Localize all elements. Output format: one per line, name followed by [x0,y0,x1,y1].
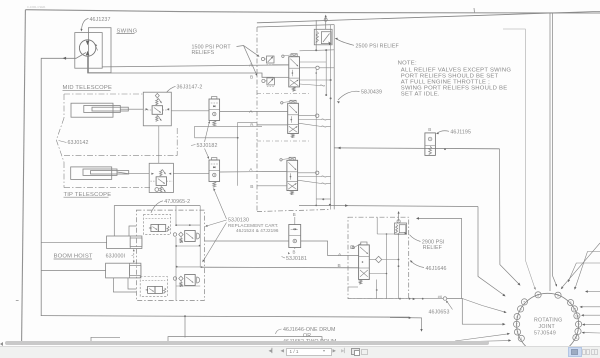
wire B2 [257,124,288,126]
hoist subvalve bottom-right [173,277,176,280]
svg-text:3: 3 [517,331,519,335]
svg-text:B: B [250,123,253,129]
wire A2 [262,110,288,112]
toolbar snapshot icon [351,348,360,355]
page layout button 2 [582,349,586,356]
svg-text:A: A [249,109,253,115]
svg-text:5: 5 [523,300,525,304]
wire bank return to top right [257,11,600,22]
wire B1 into spool [273,76,289,78]
svg-text:63J0142: 63J0142 [68,140,89,146]
svg-text:46J1652-TWO DRUM: 46J1652-TWO DRUM [283,339,336,345]
wire mid cb valve to check [171,110,209,112]
hoist assembly bus wires [175,206,177,226]
wire tip cyl to cb valve [129,173,150,175]
svg-text:B: B [293,212,296,217]
hoist subvalve top-right [173,233,176,236]
swing motor inner box [88,28,111,73]
svg-text:46J0653: 46J0653 [429,310,450,316]
wire bank feed to joint line [334,147,499,150]
title block partial [91,337,120,342]
check valve 53J0182 upper [212,97,217,99]
bank section divider 2 [257,140,310,142]
swing motor outer box [75,33,102,69]
spool valve mid telescope section [288,103,299,133]
svg-text:36J3147-2: 36J3147-2 [177,84,203,90]
svg-text:SET AT IDLE.: SET AT IDLE. [401,91,440,97]
boom cylinder 2 rod [41,269,105,271]
svg-text:53J0181: 53J0181 [286,256,307,262]
leader 53J0182 up [205,123,210,143]
wire L1 to joint [500,149,520,285]
svg-text:2500 PSI RELIEF: 2500 PSI RELIEF [356,43,400,49]
svg-text:4: 4 [516,315,518,319]
svg-text:RELIEFS: RELIEFS [192,50,215,56]
port relief B1 1500psi [262,79,265,82]
counterbalance valve 36J3147-2 mid [143,92,171,126]
wire spool1 bottom [300,79,331,81]
valve 46J1195 [425,133,436,156]
svg-text:JOINT: JOINT [539,324,556,330]
wires 46J1646 internal [376,217,378,234]
wire diag to joint 4 [462,299,505,313]
swing motor circle [79,40,95,56]
svg-text:B: B [338,263,341,269]
wire tip cb valve to check [173,173,209,175]
svg-text:11: 11 [574,336,578,340]
svg-text:46J1195: 46J1195 [450,129,471,135]
svg-text:RELIEF: RELIEF [423,245,443,251]
svg-text:8: 8 [570,301,572,305]
check valve 53J0182 lower [212,158,217,160]
svg-text:58J0439: 58J0439 [361,90,382,96]
scrollbar left arrow [0,342,3,346]
sheet top border [25,10,600,13]
leader port reliefs [237,46,259,57]
wire L2 to joint [478,207,505,296]
telescope assembly envelope 63J0142 [64,93,143,95]
wire bottom bus 298 [348,298,443,300]
gauge port circle s1 [300,67,316,69]
bank bottom wires [316,198,330,200]
counterbalance valve tip [149,163,173,192]
wire swing drain left with arrow [41,53,86,316]
svg-text:ROTATING: ROTATING [534,318,562,324]
wire B3 [257,185,287,187]
svg-text:46J1237: 46J1237 [90,17,111,23]
wire swing A line [102,65,289,67]
boom hoist assembly box 47J0965-2 [136,210,204,300]
wire B2 branch [238,122,257,185]
relief valve 2900psi [395,223,407,234]
svg-text:10: 10 [575,314,579,318]
wire top pair to joint [549,13,551,291]
svg-text:2: 2 [516,323,518,327]
rotating joint circle [517,293,579,355]
wires boom cyl2 bottom [113,278,136,292]
tip telescope cylinder [71,167,112,180]
svg-text:63J000I: 63J000I [106,253,126,259]
svg-text:12: 12 [573,307,577,311]
spool valve swing section [289,57,300,87]
leader 53J0182 down [205,149,209,158]
wire A1 into spool [273,64,289,66]
wires 46J1646 bottom [348,286,358,288]
leader 53J0130 arrows [207,220,227,226]
wire mid cyl to cb valve [129,108,144,110]
svg-text:NOTE:: NOTE: [398,61,417,67]
svg-text:5: 5 [537,293,539,297]
svg-text:46J1524 & 47J2196: 46J1524 & 47J2196 [236,228,279,233]
svg-text:B: B [250,75,253,81]
tick on left border [16,300,19,302]
svg-text:57J0549: 57J0549 [534,330,556,336]
wire drum drop line [184,316,186,337]
relief valve 2500psi box [314,29,332,45]
toolbar page field [286,348,332,356]
wires right edge to joint [569,263,600,281]
valve bank enclosure box [257,25,334,27]
svg-text:7: 7 [577,330,579,334]
horizontal scrollbar thumb [5,341,489,346]
svg-text:6: 6 [520,307,522,311]
svg-text:46J1646: 46J1646 [426,266,447,272]
wire bus to joint 2 [447,299,504,325]
tank symbol 2900 [398,212,400,222]
wire left diag into joint low [470,341,510,342]
spool 46J1646 winch [359,245,370,280]
check diamond 46J1646 [369,259,375,261]
svg-text:C-1090-4 SER.: C-1090-4 SER. [27,5,46,9]
svg-text:9: 9 [557,294,559,298]
wire swing B line [88,56,273,77]
wire right edge diag top [562,243,600,288]
port relief A1 1500psi [261,57,264,60]
bottom toolbar [0,346,600,358]
hose ports s3 [298,172,316,174]
svg-text:53J0182: 53J0182 [197,143,218,149]
swing motor arrow top [86,41,90,45]
page layout active button [568,347,582,357]
svg-text:1: 1 [520,337,522,341]
wire bottom main line [41,316,410,318]
svg-text:47J0965-2: 47J0965-2 [164,199,190,205]
toolbar nav first-page button [269,349,276,354]
bank section divider 1 [257,93,310,95]
toolbar nav prev button [281,349,287,354]
boom cylinder 2 [106,263,141,278]
part marker 46J0653 [443,297,447,301]
svg-text:B: B [250,184,253,190]
wire diag to joint 3 [455,334,509,341]
wire lower arrow line [390,318,422,331]
sheet left border [22,10,26,342]
assembly box 46J1646 [348,217,409,299]
tick on top border [473,8,476,12]
mid telescope cylinder [71,103,113,117]
wire A3 [262,171,287,173]
wire 53J0181 to 46J1646 A [301,241,359,256]
hoist subvalve top-left [144,215,171,235]
wire spool1 top to gallery [300,50,335,51]
wire hoist B to 46J1646 [200,266,358,269]
wire L3 to joint [418,218,462,298]
toolbar nav last button [341,349,348,354]
rotating joint ports [521,299,527,305]
boom cylinder 1 rod [41,241,106,243]
page layout button 3 [591,349,595,356]
wires boom cyl1 top [114,206,200,236]
wire note-edge line to joint [503,29,535,288]
swing motor arrow bottom [86,51,90,55]
tank symbol above relief [325,16,327,29]
svg-text:#6: #6 [438,295,442,299]
wire mid valve bottom to tip valve [158,126,160,164]
hoist subvalve bottom-left [140,277,167,297]
boom cylinder 1 [107,236,142,249]
wire 53J0181 left [205,240,289,242]
swing motor lever [95,45,98,51]
toolbar clipboard icon faint [361,349,368,355]
hose ports s2 [298,115,315,117]
spool valve tip telescope section [287,160,298,190]
svg-text:9: 9 [578,323,580,327]
svg-text:B: B [428,127,431,132]
svg-text:B: B [293,250,296,255]
toolbar nav next button [333,349,339,354]
leader 46J1237 [82,19,89,30]
